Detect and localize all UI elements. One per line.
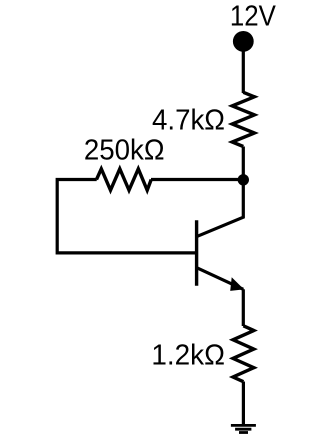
- svg-text:1.2kΩ: 1.2kΩ: [151, 339, 225, 371]
- transistor Q1 emitter arrow: [230, 277, 244, 291]
- resistor R2 250k: [97, 169, 152, 190]
- wire collector node to transistor collector: [196, 180, 243, 237]
- wire feedback resistor to base: [57, 180, 196, 253]
- node 12V supply terminal: [233, 31, 254, 52]
- svg-text:250kΩ: 250kΩ: [84, 134, 165, 166]
- wire emitter to R3: [242, 289, 245, 326]
- wire supply to R1: [242, 51, 245, 93]
- ground bar 2: [235, 428, 251, 431]
- svg-text:12V: 12V: [230, 1, 277, 33]
- wire node to feedback resistor: [151, 178, 243, 181]
- wire R3 to ground: [242, 382, 245, 426]
- transistor Q1 base bar: [195, 220, 198, 286]
- transistor Q1 emitter wire: [196, 268, 243, 290]
- resistor R3 1.2k: [233, 326, 254, 382]
- ground bar 3: [239, 431, 248, 434]
- svg-text:4.7kΩ: 4.7kΩ: [152, 105, 225, 137]
- resistor R1 4.7k: [232, 92, 254, 146]
- junction node collector/feedback: [238, 174, 249, 185]
- wire R1 to collector node: [242, 147, 245, 181]
- ground bar 1: [231, 424, 256, 427]
